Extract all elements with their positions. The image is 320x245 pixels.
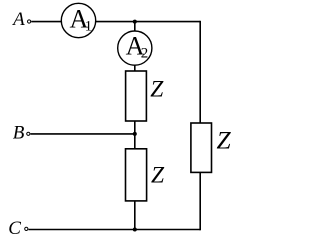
svg-text:B: B [13,123,25,144]
svg-text:Z: Z [217,125,232,154]
svg-text:1: 1 [85,18,93,34]
svg-text:C: C [8,218,21,239]
svg-text:2: 2 [141,45,149,61]
svg-text:Z: Z [150,77,164,103]
svg-text:A: A [11,9,25,30]
svg-text:Z: Z [151,163,165,189]
